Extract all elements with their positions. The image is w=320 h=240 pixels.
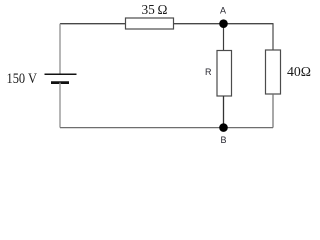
battery BT1 bottom plate (negative, short thick) xyxy=(51,81,69,84)
node A junction dot xyxy=(219,19,228,28)
svg-text:R: R xyxy=(205,67,212,77)
wire right branch lower: 40 ohm resistor to bottom rail xyxy=(272,94,274,128)
wire left lower: battery down to bottom rail xyxy=(59,83,61,128)
node B junction dot xyxy=(219,123,228,132)
wire middle branch upper: node A to resistor R xyxy=(223,24,225,51)
svg-text:40Ω: 40Ω xyxy=(287,65,311,80)
resistor 35 ohm (box) xyxy=(126,18,174,29)
wire top: battery to node A to right corner xyxy=(60,23,274,25)
battery BT1 top plate (positive, long) xyxy=(45,73,77,75)
svg-text:150 V: 150 V xyxy=(7,71,38,87)
svg-text:A: A xyxy=(220,6,226,16)
wire left upper: top corner down to battery xyxy=(59,24,61,74)
svg-text:35 Ω: 35 Ω xyxy=(142,3,168,18)
resistor 40 ohm (vertical box) xyxy=(266,50,281,94)
wire bottom rail xyxy=(60,127,273,129)
svg-text:B: B xyxy=(221,135,227,145)
wire middle branch lower: resistor R to node B xyxy=(223,96,225,128)
resistor R (vertical box) xyxy=(217,51,232,97)
wire right branch upper: top corner to 40 ohm resistor xyxy=(272,24,274,51)
